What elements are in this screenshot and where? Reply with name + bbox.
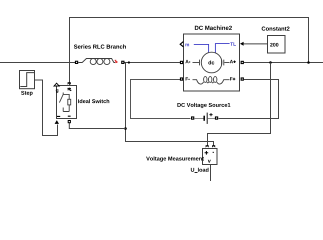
wire DC Machine A+ to right edge (244, 62, 323, 64)
pin label g (56, 89, 59, 93)
arrowhead into TL from Constant2 (240, 42, 244, 46)
label U_load signal name (191, 168, 209, 173)
wire DC Machine F- loop to DC Voltage Source minus (131, 80, 191, 119)
label Constant2 (262, 27, 290, 31)
blue wire TL to rotor (215, 44, 229, 54)
plus sign (209, 113, 212, 116)
arrowhead into minus input (212, 145, 215, 147)
field winding loops (204, 77, 207, 83)
battery long plate (206, 113, 208, 124)
pin 1 hollow arrow marker on Ideal Switch top (54, 83, 59, 86)
port square A+ (241, 61, 244, 64)
wire RLC output to DC Machine A- (125, 62, 181, 64)
port square F- (180, 77, 183, 80)
port square F+ (241, 77, 244, 80)
inductor loops (90, 59, 96, 65)
red direction arrow (115, 59, 117, 61)
label Voltage Measurement (146, 156, 204, 161)
inductor L icon lead (78, 59, 115, 63)
block Series RLC Branch : left port square (75, 61, 78, 64)
switch internal resistor Ron (68, 99, 71, 105)
block Voltage Measurement (203, 149, 218, 165)
label Series RLC Branch (74, 44, 126, 48)
rotor circle (201, 52, 222, 73)
pin label A+ (230, 60, 236, 63)
port square Ideal Switch terminal 2 (68, 120, 71, 123)
brush left (200, 60, 202, 66)
wire branch down to Voltage Measurement minus (126, 63, 214, 146)
pin label TL (230, 42, 236, 45)
block Constant2 (268, 36, 286, 54)
brush right (222, 60, 224, 66)
label Ideal Switch (78, 99, 109, 103)
junction dot on RLC output wire (128, 61, 130, 63)
value label 200 (270, 43, 278, 47)
port square A- (180, 61, 183, 64)
label DC Machine2 (195, 26, 232, 30)
pin label m (185, 44, 189, 47)
junction dot node A+ top loop (307, 61, 310, 64)
arrowhead into Ideal Switch top terminal (68, 82, 71, 85)
junction dot node A+ branch down (269, 61, 272, 64)
block DC Voltage Source1 : left port square (191, 116, 194, 119)
pin label F+ (230, 77, 235, 80)
gate input arrowhead (55, 120, 59, 124)
field winding leads (193, 80, 230, 84)
wire DC Machine F+ to DC Voltage Source plus (219, 80, 279, 119)
junction dot where switch terminal-2 wire joins branch (124, 127, 127, 130)
v mark (208, 160, 211, 163)
label Step (21, 91, 33, 96)
block DC Machine2 (184, 34, 240, 91)
armature wire left (193, 62, 200, 64)
switch lever symbol (59, 93, 69, 112)
wire node A+ down to Voltage Measurement plus (208, 63, 271, 146)
armature wire right (224, 62, 229, 64)
blue wire m to rotor (194, 44, 209, 53)
output port m chevron (180, 42, 183, 47)
pin label A- (185, 60, 190, 63)
wire from off-page left into Series RLC Branch (0, 62, 75, 64)
arrowhead into plus input (206, 145, 209, 147)
block Step (20, 71, 35, 89)
wire top loop from Ideal Switch terminal 1 to node A+ (70, 18, 309, 86)
wire Voltage Measurement output to U_load (210, 165, 212, 182)
pin 1 mark (68, 88, 71, 91)
battery lead left (194, 118, 203, 120)
battery short plate (203, 116, 205, 121)
battery lead right (208, 118, 215, 120)
right port square (215, 116, 218, 119)
wire Ideal Switch terminal 2 to branch node (69, 123, 125, 129)
label DC Voltage Source1 (177, 103, 230, 108)
wire Constant2 to TL (244, 43, 268, 45)
pin label F- (186, 77, 190, 80)
wire Step output to Ideal Switch gate (35, 80, 58, 136)
rotor label dc (208, 60, 214, 64)
minus mark (213, 151, 214, 153)
right port square (121, 61, 124, 64)
plus mark (205, 151, 209, 155)
pin 2 marks (57, 115, 71, 117)
block Ideal Switch (57, 86, 77, 119)
